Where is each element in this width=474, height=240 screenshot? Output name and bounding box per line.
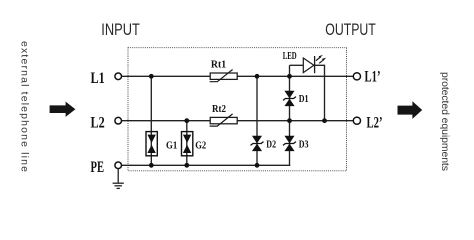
TVS diode D2	[251, 136, 264, 151]
TVS diode D1	[283, 91, 296, 106]
wire D2 branch vertical	[256, 76, 258, 165]
junction dot PE/D2	[255, 163, 260, 168]
ground symbol	[113, 169, 124, 189]
svg-text:D2: D2	[266, 140, 276, 151]
wire D1-D3 branch vertical	[289, 65, 291, 166]
terminal PE	[115, 162, 122, 169]
junction dot L1/D1	[287, 74, 292, 79]
svg-text:G1: G1	[166, 140, 177, 151]
wire G1 branch vertical	[150, 76, 152, 165]
output flow arrow	[398, 101, 423, 119]
junction dot L1/D2	[255, 74, 260, 79]
svg-text:D3: D3	[299, 140, 309, 151]
dashed enclosure box	[128, 48, 347, 171]
svg-text:Rt1: Rt1	[211, 59, 226, 71]
junction dot PE/G1	[149, 163, 154, 168]
svg-text:protected equipments: protected equipments	[439, 72, 451, 171]
svg-text:PE: PE	[91, 159, 105, 176]
svg-text:L1: L1	[91, 70, 105, 87]
svg-text:OUTPUT: OUTPUT	[325, 21, 376, 39]
terminal L2	[115, 117, 122, 124]
svg-text:external telephone line: external telephone line	[19, 41, 31, 172]
LED	[303, 55, 326, 73]
junction dot L1/G1	[149, 74, 154, 79]
input flow arrow	[50, 102, 76, 117]
wire LED branch top	[290, 64, 304, 66]
terminal L2'	[353, 117, 360, 124]
TVS diode D3	[283, 136, 296, 151]
svg-text:G2: G2	[195, 140, 206, 151]
svg-text:D1: D1	[299, 94, 309, 105]
wire G2 branch vertical	[186, 121, 188, 166]
svg-text:L2’: L2’	[367, 114, 383, 131]
wire LED branch right	[315, 65, 325, 120]
svg-text:INPUT: INPUT	[101, 21, 140, 39]
svg-text:L2: L2	[91, 115, 105, 132]
terminal L1	[115, 73, 122, 80]
wire PE horizontal	[121, 164, 290, 166]
svg-text:LED: LED	[283, 51, 297, 62]
wire L2 horizontal	[121, 120, 353, 122]
wire L1 horizontal	[121, 75, 353, 77]
junction dot PE/G2	[184, 163, 189, 168]
gas discharge tube G2	[182, 132, 193, 156]
svg-text:L1’: L1’	[365, 68, 381, 85]
thermistor Rt1	[210, 70, 238, 82]
junction dot L2/LED	[322, 118, 327, 123]
thermistor Rt2	[210, 114, 238, 126]
junction dot L2/D1	[287, 118, 292, 123]
gas discharge tube G1	[146, 132, 157, 156]
junction dot L2/G2	[184, 118, 189, 123]
terminal L1'	[353, 73, 360, 80]
svg-text:Rt2: Rt2	[212, 103, 226, 115]
